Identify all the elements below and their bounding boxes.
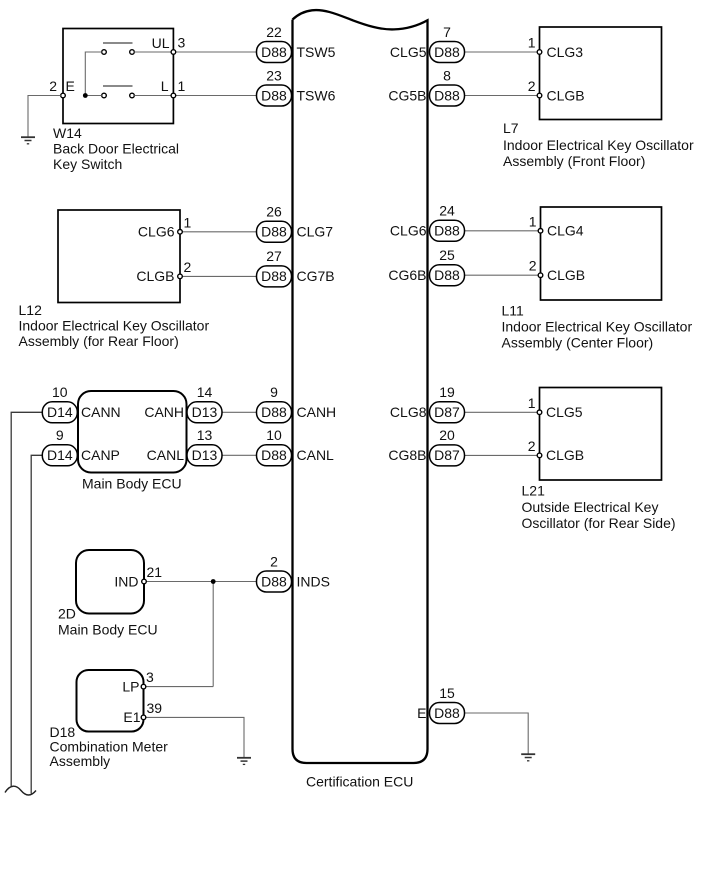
terminal 2 CLGB bbox=[178, 274, 183, 279]
wire TSW6 row bbox=[176, 95, 257, 97]
svg-text:Back Door Electrical: Back Door Electrical bbox=[53, 141, 179, 157]
svg-text:1: 1 bbox=[184, 214, 192, 230]
main body ECU 2D box bbox=[76, 550, 162, 614]
svg-text:D88: D88 bbox=[261, 268, 287, 284]
wire L12 pin1 to CLG7 bbox=[182, 231, 256, 233]
svg-text:19: 19 bbox=[439, 384, 455, 400]
wire CLG8 to L21 pin1 bbox=[465, 411, 538, 413]
svg-text:IND: IND bbox=[114, 573, 138, 589]
svg-text:9: 9 bbox=[56, 427, 64, 443]
svg-text:Main Body ECU: Main Body ECU bbox=[58, 622, 158, 638]
svg-text:22: 22 bbox=[266, 24, 282, 40]
svg-text:D88: D88 bbox=[261, 447, 287, 463]
svg-text:CANL: CANL bbox=[147, 447, 185, 463]
svg-text:CG6B: CG6B bbox=[388, 267, 426, 283]
connector D13 pin 14 CANH bbox=[187, 384, 222, 423]
svg-text:25: 25 bbox=[439, 247, 455, 263]
oscillator L11 box bbox=[529, 207, 662, 300]
svg-text:21: 21 bbox=[147, 564, 163, 580]
svg-text:Assembly (Front Floor): Assembly (Front Floor) bbox=[503, 153, 645, 169]
svg-text:Key Switch: Key Switch bbox=[53, 156, 122, 172]
switch contact UL bbox=[102, 50, 107, 55]
svg-text:CANN: CANN bbox=[81, 404, 121, 420]
svg-text:D88: D88 bbox=[261, 87, 287, 103]
oscillator L12 box bbox=[58, 210, 192, 303]
connector D88 pin 26 CLG7 bbox=[257, 204, 334, 243]
wire L12 pin2 to CG7B bbox=[182, 275, 256, 277]
Certification ECU body U1 bbox=[293, 10, 428, 789]
svg-text:D13: D13 bbox=[192, 447, 218, 463]
svg-text:2: 2 bbox=[184, 259, 192, 275]
terminal 2 CLGB bbox=[537, 93, 542, 98]
wire IND to INDS bbox=[146, 581, 256, 583]
terminal 3 bbox=[171, 50, 176, 55]
terminal 1 CLG5 bbox=[537, 410, 542, 415]
svg-text:1: 1 bbox=[528, 35, 536, 51]
wire CANP to left bus bbox=[31, 455, 42, 793]
svg-text:2: 2 bbox=[49, 78, 57, 94]
svg-text:23: 23 bbox=[266, 67, 282, 83]
svg-text:TSW5: TSW5 bbox=[297, 44, 336, 60]
wire junction down to LP bbox=[212, 582, 214, 687]
terminal 1 bbox=[171, 93, 176, 98]
svg-text:CLG8: CLG8 bbox=[390, 404, 427, 420]
svg-text:3: 3 bbox=[178, 35, 186, 51]
svg-text:20: 20 bbox=[439, 427, 455, 443]
svg-text:Assembly (Center Floor): Assembly (Center Floor) bbox=[502, 335, 654, 351]
svg-text:CLG6: CLG6 bbox=[138, 224, 175, 240]
svg-text:24: 24 bbox=[439, 203, 455, 219]
svg-text:Certification ECU: Certification ECU bbox=[306, 774, 413, 790]
wire CLG5 to L7 pin1 bbox=[465, 51, 538, 53]
svg-text:D88: D88 bbox=[261, 404, 287, 420]
wire D13 CANL to D88 CANL bbox=[222, 454, 257, 456]
svg-text:W14: W14 bbox=[53, 125, 82, 141]
svg-text:Main Body ECU: Main Body ECU bbox=[82, 476, 182, 492]
switch contact L bbox=[102, 93, 107, 98]
connector D87 pin 20 CG8B bbox=[388, 427, 464, 466]
terminal 2 CLGB bbox=[538, 273, 543, 278]
svg-text:8: 8 bbox=[443, 67, 451, 83]
combination meter D18 box bbox=[77, 669, 163, 731]
terminal 39 E1 bbox=[141, 715, 146, 720]
svg-text:E1: E1 bbox=[123, 709, 140, 725]
label L21 bbox=[522, 483, 676, 532]
svg-text:7: 7 bbox=[443, 24, 451, 40]
connector D88 pin 8 CG5B bbox=[388, 67, 464, 106]
terminal 1 CLG6 bbox=[178, 230, 183, 235]
svg-text:2: 2 bbox=[528, 438, 536, 454]
junction node E bbox=[83, 93, 88, 98]
svg-text:D88: D88 bbox=[261, 44, 287, 60]
svg-text:CG8B: CG8B bbox=[388, 447, 426, 463]
connector D14 pin 10 CANN bbox=[42, 384, 77, 423]
wire CG6B to L11 pin2 bbox=[465, 274, 539, 276]
svg-text:D88: D88 bbox=[434, 267, 460, 283]
svg-text:1: 1 bbox=[529, 213, 537, 229]
terminal 1 CLG4 bbox=[538, 229, 543, 234]
oscillator L21 box bbox=[528, 388, 662, 481]
ground G3 (certification ECU E) bbox=[521, 754, 535, 761]
svg-text:CLGB: CLGB bbox=[546, 447, 584, 463]
svg-text:10: 10 bbox=[52, 384, 68, 400]
svg-text:1: 1 bbox=[178, 78, 186, 94]
svg-text:CLG4: CLG4 bbox=[547, 223, 584, 239]
wire TSW5 row bbox=[176, 51, 257, 53]
svg-text:CG7B: CG7B bbox=[297, 268, 335, 284]
svg-text:Indoor Electrical Key Oscillat: Indoor Electrical Key Oscillator bbox=[19, 318, 210, 334]
svg-text:CANP: CANP bbox=[81, 447, 120, 463]
svg-text:14: 14 bbox=[197, 384, 213, 400]
svg-text:CANL: CANL bbox=[297, 447, 335, 463]
svg-text:CLG6: CLG6 bbox=[390, 223, 427, 239]
svg-text:Assembly: Assembly bbox=[50, 753, 111, 769]
svg-text:INDS: INDS bbox=[297, 573, 330, 589]
svg-text:CLGB: CLGB bbox=[547, 267, 585, 283]
svg-text:CG5B: CG5B bbox=[388, 87, 426, 103]
svg-text:15: 15 bbox=[439, 685, 455, 701]
svg-text:Indoor Electrical Key Oscillat: Indoor Electrical Key Oscillator bbox=[502, 319, 693, 335]
connector D88 pin 27 CG7B bbox=[257, 248, 335, 287]
svg-text:D14: D14 bbox=[47, 447, 73, 463]
connector D88 pin 22 TSW5 bbox=[257, 24, 336, 63]
svg-text:10: 10 bbox=[266, 427, 282, 443]
svg-text:L11: L11 bbox=[502, 303, 525, 319]
svg-text:CANH: CANH bbox=[144, 404, 184, 420]
svg-text:13: 13 bbox=[197, 427, 213, 443]
svg-text:9: 9 bbox=[270, 384, 278, 400]
svg-text:D13: D13 bbox=[192, 404, 218, 420]
terminal 21 IND bbox=[142, 579, 147, 584]
switch W14 box bbox=[49, 29, 185, 124]
svg-text:CLG5: CLG5 bbox=[390, 44, 427, 60]
wire CG5B to L7 pin2 bbox=[465, 95, 538, 97]
svg-text:D88: D88 bbox=[261, 573, 287, 589]
svg-text:2: 2 bbox=[528, 78, 536, 94]
svg-text:39: 39 bbox=[147, 700, 163, 716]
svg-text:2: 2 bbox=[529, 258, 537, 274]
main body ECU box bbox=[78, 391, 187, 473]
connector D88 pin 23 TSW6 bbox=[257, 67, 336, 106]
svg-text:26: 26 bbox=[266, 204, 282, 220]
svg-text:CLG3: CLG3 bbox=[547, 44, 584, 60]
svg-text:D14: D14 bbox=[47, 404, 73, 420]
svg-text:L21: L21 bbox=[522, 483, 546, 499]
svg-text:LP: LP bbox=[122, 678, 139, 694]
svg-text:L7: L7 bbox=[503, 120, 519, 136]
wire E to ground bbox=[28, 96, 61, 138]
svg-text:E: E bbox=[417, 705, 426, 721]
svg-text:2: 2 bbox=[270, 553, 278, 569]
svg-text:UL: UL bbox=[152, 35, 170, 51]
svg-text:CLGB: CLGB bbox=[136, 268, 174, 284]
connector D88 pin 9 CANH bbox=[257, 384, 337, 423]
label L7 bbox=[503, 120, 694, 169]
svg-text:D88: D88 bbox=[434, 705, 460, 721]
terminal E bbox=[61, 93, 66, 98]
svg-text:2D: 2D bbox=[58, 606, 76, 622]
svg-text:Outside Electrical Key: Outside Electrical Key bbox=[522, 499, 659, 515]
svg-text:D87: D87 bbox=[434, 447, 460, 463]
wire CANN to left bus bbox=[11, 412, 42, 786]
svg-text:D88: D88 bbox=[434, 223, 460, 239]
label D18 bbox=[50, 724, 169, 769]
terminal 2 CLGB bbox=[537, 453, 542, 458]
connector D88 pin 24 CLG6 bbox=[390, 203, 465, 242]
svg-text:Oscillator (for Rear Side): Oscillator (for Rear Side) bbox=[522, 515, 676, 531]
wire D13 CANH to D88 CANH bbox=[222, 411, 257, 413]
svg-text:E: E bbox=[66, 78, 75, 94]
svg-text:D88: D88 bbox=[261, 224, 287, 240]
svg-text:CLGB: CLGB bbox=[547, 87, 585, 103]
svg-text:D87: D87 bbox=[434, 404, 460, 420]
svg-text:L: L bbox=[161, 78, 169, 94]
connector D88 pin 2 INDS bbox=[257, 553, 330, 592]
label L11 bbox=[502, 303, 693, 351]
oscillator L7 box bbox=[528, 27, 662, 120]
terminal 1 CLG3 bbox=[537, 50, 542, 55]
svg-text:3: 3 bbox=[146, 669, 154, 685]
svg-text:27: 27 bbox=[266, 248, 282, 264]
connector D88 pin 25 CG6B bbox=[388, 247, 464, 286]
svg-text:D88: D88 bbox=[434, 44, 460, 60]
wire CLG6 to L11 pin1 bbox=[465, 230, 539, 232]
connector D14 pin 9 CANP bbox=[42, 427, 77, 466]
label W14 bbox=[53, 125, 179, 172]
svg-text:Indoor Electrical Key Oscillat: Indoor Electrical Key Oscillator bbox=[503, 137, 694, 153]
wire break squiggle bbox=[5, 786, 36, 795]
connector D13 pin 13 CANL bbox=[187, 427, 222, 466]
svg-text:TSW6: TSW6 bbox=[297, 87, 336, 103]
wire E pin15 to ground bbox=[465, 713, 529, 754]
wire internal W14 bbox=[85, 52, 101, 96]
connector D88 pin 7 CLG5 bbox=[390, 24, 465, 63]
svg-text:Assembly (for Rear Floor): Assembly (for Rear Floor) bbox=[19, 333, 179, 349]
svg-text:CANH: CANH bbox=[297, 404, 337, 420]
label 2D bbox=[58, 606, 158, 638]
connector D88 pin 10 CANL bbox=[257, 427, 335, 466]
svg-text:1: 1 bbox=[528, 395, 536, 411]
wire LP bbox=[146, 686, 213, 688]
wire CG8B to L21 pin2 bbox=[465, 454, 538, 456]
svg-text:D88: D88 bbox=[434, 87, 460, 103]
wire E1 to ground bbox=[146, 717, 244, 757]
ground G2 (E1) bbox=[237, 758, 251, 765]
ground G1 (W14) bbox=[21, 137, 35, 144]
terminal 3 LP bbox=[141, 684, 146, 689]
svg-text:CLG7: CLG7 bbox=[297, 224, 334, 240]
junction node IND/LP bbox=[211, 579, 216, 584]
label L12 bbox=[19, 302, 210, 349]
svg-text:L12: L12 bbox=[19, 302, 43, 318]
svg-text:CLG5: CLG5 bbox=[546, 404, 583, 420]
connector D88 pin 15 E bbox=[417, 685, 464, 724]
connector D87 pin 19 CLG8 bbox=[390, 384, 465, 423]
